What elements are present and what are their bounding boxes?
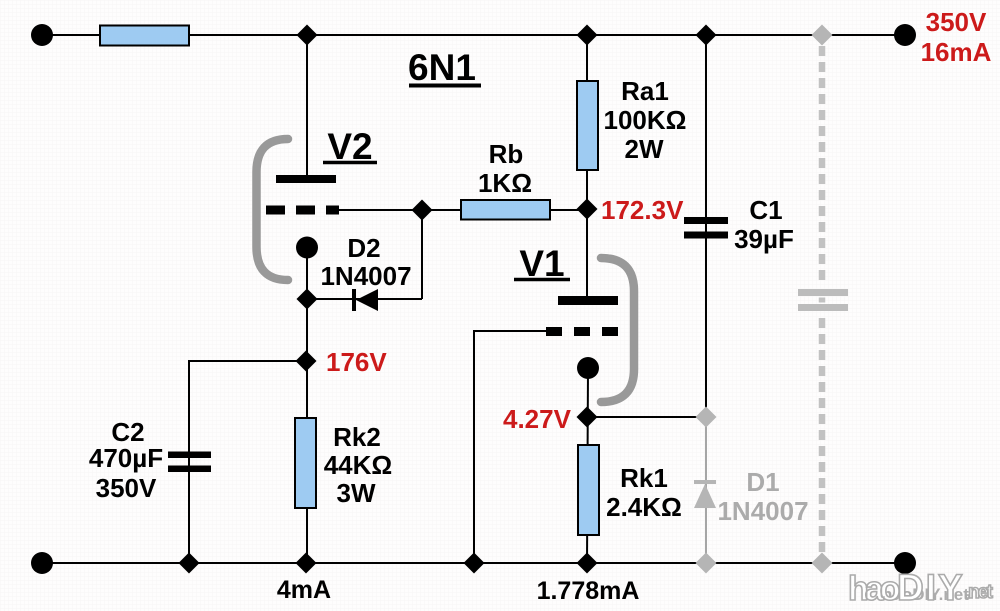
label D2 value (320, 233, 411, 291)
label Rk1 value (606, 463, 682, 522)
svg-text:1N4007: 1N4007 (320, 261, 411, 291)
svg-text:3W: 3W (337, 478, 376, 508)
svg-text:D2: D2 (347, 233, 380, 263)
label V1 (514, 243, 570, 284)
label Ra1 value (603, 76, 686, 164)
tube V2 grid (dashed) (266, 206, 339, 215)
tube V2 envelope (257, 139, 289, 280)
watermark haoDIY.net (848, 567, 993, 608)
label Rk2 value (324, 422, 393, 508)
svg-text:16mA: 16mA (921, 37, 992, 67)
wire bottom rail (42, 562, 905, 564)
junction node bottom Rk1 (577, 553, 598, 574)
diode D1 (gray) (694, 480, 716, 508)
svg-text:Rk2: Rk2 (333, 422, 381, 452)
svg-text:1.778mA: 1.778mA (537, 577, 640, 605)
svg-text:176V: 176V (326, 347, 387, 377)
svg-text:44KΩ: 44KΩ (324, 450, 393, 480)
svg-text:1N4007: 1N4007 (717, 496, 808, 526)
tube V1 grid (dashed) (546, 327, 620, 336)
junction node 172.3V (577, 199, 598, 220)
svg-text:2.4KΩ: 2.4KΩ (606, 492, 682, 522)
wire 176V to C2 (189, 361, 306, 563)
junction node D1 bottom (gray) (696, 553, 717, 574)
junction node 176V (296, 351, 317, 372)
tube V1 cathode (577, 357, 599, 379)
wire dashed gray branch (819, 46, 826, 553)
svg-text:172.3V: 172.3V (601, 195, 684, 225)
resistor Rk2 (295, 418, 316, 508)
tube V2 cathode (296, 237, 318, 259)
junction node top V2 (297, 25, 318, 46)
wire V2 plate drop (306, 35, 308, 176)
junction node grid V2 / Rb / D2 (412, 200, 433, 221)
svg-text:.net: .net (965, 582, 993, 603)
junction node D1 top (gray) (696, 407, 717, 428)
label Rb value (478, 139, 532, 198)
svg-text:6N1: 6N1 (408, 47, 476, 88)
junction node top Ra1 (577, 25, 598, 46)
wire Ra1 branch (586, 35, 588, 209)
label C1 value (734, 195, 794, 254)
wire V2 cathode down (306, 250, 308, 563)
svg-text:D1: D1 (746, 467, 779, 497)
junction node bottom dashed (gray) (812, 553, 833, 574)
wire V2 grid to node (338, 209, 461, 211)
junction node top C1 (696, 25, 717, 46)
terminal top-right (894, 24, 916, 46)
junction node 4.27V (577, 407, 598, 428)
wire C1 branch (705, 35, 707, 417)
svg-text:350V: 350V (96, 473, 157, 503)
tube V1 envelope (601, 258, 634, 402)
terminal top-left (31, 24, 53, 46)
wire D2 horizontal (307, 298, 422, 300)
svg-text:hao: hao (848, 570, 900, 608)
wire D1 branch (gray) (705, 417, 707, 563)
terminal bottom-left (31, 552, 53, 574)
svg-text:Rb: Rb (489, 139, 524, 169)
svg-text:C1: C1 (749, 195, 782, 225)
tube V2 plate (276, 175, 336, 183)
capacitor C1 (684, 217, 728, 239)
svg-text:Ra1: Ra1 (621, 76, 669, 106)
label C2 value (89, 417, 163, 503)
wire node 4.27V to D1 (587, 416, 706, 418)
label V2 (323, 126, 377, 167)
resistor R input (unlabeled) (100, 26, 189, 46)
svg-text:4mA: 4mA (277, 576, 331, 604)
label 350V 16mA (red) (921, 7, 992, 67)
diode D2 (352, 289, 378, 311)
capacitor C2 (168, 452, 211, 473)
svg-text:1KΩ: 1KΩ (478, 168, 532, 198)
svg-text:350V: 350V (926, 7, 987, 37)
tube V1 plate (558, 296, 618, 305)
junction node bottom C2 (179, 553, 200, 574)
capacitor gray on dashed branch (798, 289, 848, 311)
junction node top dashed (gray) (812, 25, 833, 46)
svg-text:DIY: DIY (897, 567, 965, 608)
wire V1 cathode down (587, 370, 588, 563)
resistor Ra1 (577, 81, 598, 170)
junction node V2 cathode / D2 (297, 289, 318, 310)
svg-text:470µF: 470µF (89, 443, 163, 473)
junction node bottom Rk2 (296, 553, 317, 574)
svg-text:39µF: 39µF (734, 224, 794, 254)
svg-text:Rk1: Rk1 (620, 463, 668, 493)
label 6N1 title (408, 47, 481, 88)
wire top rail (42, 34, 905, 36)
svg-text:2W: 2W (625, 134, 664, 164)
resistor Rk1 (578, 445, 599, 535)
wire Rb to node 172.3V (550, 209, 587, 211)
svg-text:4.27V: 4.27V (503, 404, 572, 434)
svg-text:100KΩ: 100KΩ (603, 105, 686, 135)
wire V1 grid return (474, 331, 546, 563)
junction node bottom V1 grid (464, 553, 485, 574)
wire V1 plate drop (586, 209, 588, 297)
terminal bottom-right (894, 552, 916, 574)
label D1 value (gray) (717, 467, 808, 526)
wire D2 vertical (421, 210, 423, 299)
resistor Rb (461, 200, 550, 220)
